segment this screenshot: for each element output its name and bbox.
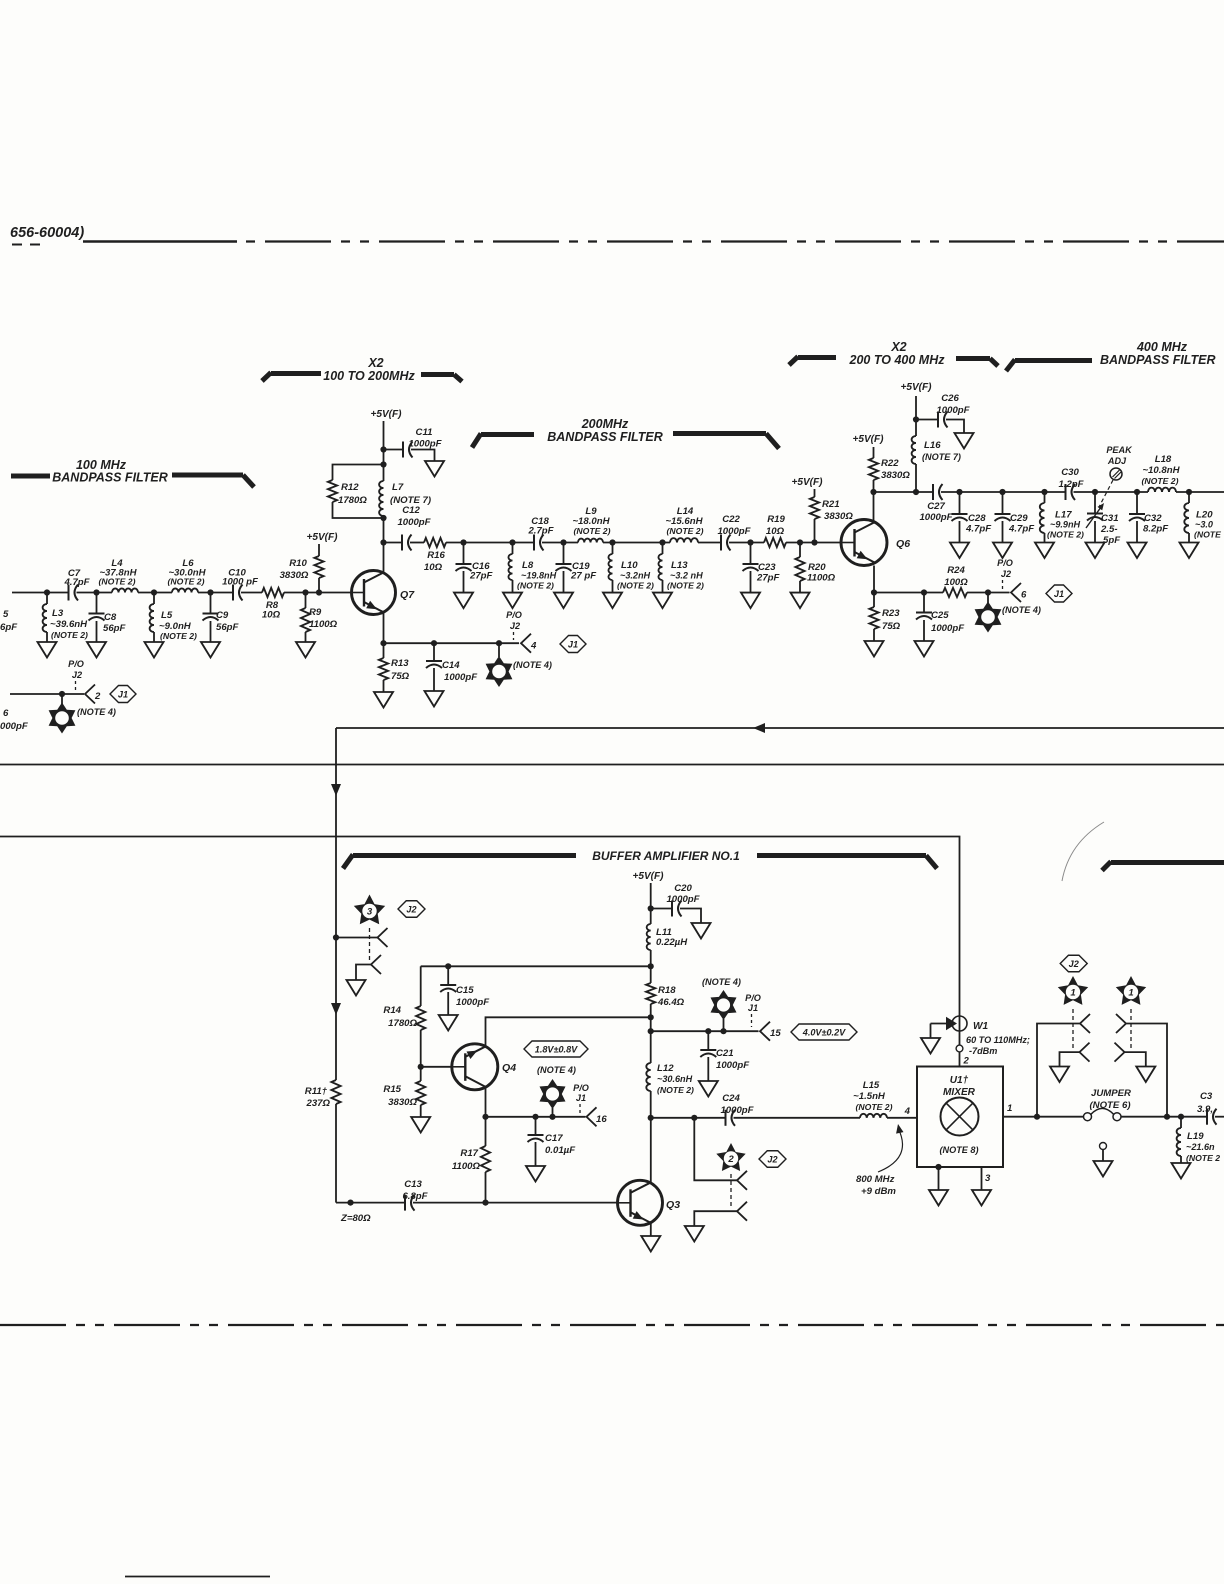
svg-text:L7: L7	[392, 482, 404, 493]
connector circle mixer pin2	[956, 1045, 963, 1052]
capacitor C20	[651, 908, 672, 910]
ground R13	[374, 692, 393, 708]
ground L3	[38, 642, 57, 658]
node C20	[648, 905, 654, 911]
transistor Q3	[618, 1180, 663, 1225]
svg-text:P/O: P/O	[997, 558, 1013, 568]
svg-text:~19.8nH: ~19.8nH	[521, 571, 557, 581]
wire to +5V L16	[915, 396, 917, 420]
svg-text:27pF: 27pF	[756, 573, 781, 584]
capacitor C32	[1136, 492, 1138, 514]
ground L19	[1172, 1163, 1191, 1179]
wire pin15	[651, 1030, 759, 1032]
capacitor C14	[433, 643, 435, 661]
svg-text:~9.9nH: ~9.9nH	[1050, 520, 1081, 530]
svg-text:(NOTE 4): (NOTE 4)	[702, 977, 741, 987]
ground R15	[411, 1117, 430, 1133]
ground L5	[145, 642, 164, 658]
capacitor C9	[210, 593, 212, 614]
wire to +5V Q7	[383, 421, 385, 450]
wire Q7 emitter	[383, 612, 385, 644]
ground C9	[201, 642, 220, 658]
connector star 3	[354, 895, 385, 925]
ground R20	[791, 593, 810, 609]
svg-text:(NOTE 2): (NOTE 2)	[617, 581, 654, 591]
svg-text:(NOTE 4): (NOTE 4)	[1002, 605, 1041, 615]
svg-text:1000pF: 1000pF	[408, 439, 442, 450]
svg-text:P/O: P/O	[573, 1083, 589, 1093]
svg-text:R20: R20	[808, 562, 826, 573]
svg-text:+5V(F): +5V(F)	[306, 532, 338, 543]
node star pin6	[985, 589, 991, 595]
node L3	[44, 589, 50, 595]
svg-text:R19: R19	[767, 514, 785, 525]
wire to mixer LO	[0, 837, 960, 1017]
ground C11	[425, 461, 444, 477]
node Q6 collector	[870, 489, 876, 495]
svg-text:C13: C13	[404, 1179, 422, 1190]
hex label J2 star3	[398, 901, 425, 918]
svg-text:+5V(F): +5V(F)	[632, 871, 664, 882]
node C15	[445, 963, 451, 969]
inductor L7	[383, 516, 385, 518]
svg-text:R24: R24	[947, 565, 965, 576]
svg-text:~3.2nH: ~3.2nH	[620, 571, 651, 581]
svg-text:27pF: 27pF	[469, 571, 494, 582]
svg-text:C24: C24	[722, 1093, 740, 1104]
svg-text:75Ω: 75Ω	[391, 671, 410, 682]
resistor R16	[424, 538, 446, 547]
svg-text:BANDPASS FILTER: BANDPASS FILTER	[547, 430, 663, 444]
transistor Q4	[452, 1044, 498, 1090]
svg-text:R16: R16	[427, 550, 445, 561]
svg-text:P/O: P/O	[68, 659, 84, 669]
capacitor C30	[1065, 484, 1067, 500]
wire Q4 base	[421, 1066, 453, 1068]
resistor R12 parallel branch	[333, 502, 384, 518]
node C8	[93, 589, 99, 595]
svg-text:(NOTE 2): (NOTE 2)	[517, 581, 554, 591]
svg-text:~10.8nH: ~10.8nH	[1142, 465, 1180, 476]
capacitor C10	[232, 585, 234, 601]
transistor Q7	[352, 571, 396, 615]
svg-text:0.22µH: 0.22µH	[656, 937, 688, 948]
inductor L14	[670, 538, 698, 542]
ground L13	[653, 593, 672, 609]
svg-text:3: 3	[367, 907, 373, 918]
node L11-R18	[648, 963, 654, 969]
svg-text:5: 5	[3, 609, 9, 620]
svg-text:6: 6	[3, 708, 9, 719]
capacitor C33	[1206, 1109, 1208, 1125]
svg-text:~3.0: ~3.0	[1195, 520, 1213, 530]
svg-text:(NOTE 6): (NOTE 6)	[1089, 1100, 1130, 1111]
pin 6 of J2	[1011, 583, 1021, 602]
capacitor C16	[463, 543, 465, 565]
wire L4-L6	[138, 592, 172, 594]
svg-text:BANDPASS FILTER: BANDPASS FILTER	[52, 471, 168, 485]
svg-text:PEAK: PEAK	[1106, 445, 1133, 455]
hex label 1.8V	[524, 1041, 588, 1057]
svg-text:J2: J2	[1069, 959, 1079, 969]
mixer U1 box	[917, 1067, 1003, 1168]
svg-text:L18: L18	[1155, 454, 1172, 465]
svg-text:(NOTE 2): (NOTE 2)	[1047, 530, 1084, 540]
connector star 1 right	[1116, 976, 1146, 1005]
node star3	[333, 934, 339, 940]
resistor R9	[305, 593, 307, 609]
top dash-dot border line	[83, 240, 237, 243]
svg-text:C3: C3	[1200, 1091, 1213, 1102]
svg-text:L10: L10	[621, 560, 638, 571]
svg-text:1000pF: 1000pF	[666, 894, 700, 905]
svg-text:J2: J2	[406, 904, 416, 914]
pin 16 of J1	[587, 1107, 597, 1126]
svg-text:200 TO 400 MHz: 200 TO 400 MHz	[849, 353, 946, 367]
svg-text:(NOTE 2): (NOTE 2)	[667, 526, 704, 536]
wire Q6 emitter	[873, 566, 875, 593]
wire +5V to C20 node	[650, 883, 652, 924]
wire C27-C30	[941, 491, 1065, 493]
capacitor C22	[720, 535, 722, 551]
node C29	[999, 489, 1005, 495]
node Q7 emitter	[380, 640, 386, 646]
node L17	[1041, 489, 1047, 495]
capacitor C18	[533, 535, 535, 551]
node R9	[302, 589, 308, 595]
node L7 top	[380, 461, 386, 467]
wire C10-R8	[241, 592, 262, 594]
svg-text:+5V(F): +5V(F)	[900, 382, 932, 393]
svg-text:60 TO 110MHz;: 60 TO 110MHz;	[966, 1035, 1030, 1045]
ground C26	[955, 433, 974, 449]
svg-text:L16: L16	[924, 440, 941, 451]
svg-text:J2: J2	[510, 621, 520, 631]
svg-text:C22: C22	[722, 514, 740, 525]
capacitor C29	[1002, 492, 1004, 514]
svg-text:+5V(F): +5V(F)	[852, 434, 884, 445]
wire mixer input	[651, 1117, 725, 1119]
connector star pin2	[61, 694, 63, 704]
svg-text:J2: J2	[72, 670, 82, 680]
svg-text:100Ω: 100Ω	[944, 577, 968, 588]
ground jumper spare	[1094, 1161, 1113, 1177]
ground W1	[921, 1038, 940, 1054]
wire Q3 collector	[650, 1118, 652, 1184]
wire emitter to R24	[874, 592, 943, 594]
wire mixer output	[1003, 1116, 1084, 1118]
svg-text:BUFFER AMPLIFIER NO.1: BUFFER AMPLIFIER NO.1	[592, 849, 740, 863]
svg-text:1.2pF: 1.2pF	[1058, 479, 1084, 490]
capacitor C21	[707, 1031, 709, 1050]
ground star3	[347, 980, 366, 996]
svg-text:Z=80Ω: Z=80Ω	[340, 1213, 371, 1224]
inductor L3	[46, 593, 48, 605]
svg-text:3.9,: 3.9,	[1197, 1104, 1213, 1115]
connector star pin4	[498, 643, 500, 657]
node R21	[811, 539, 817, 545]
node star2 branch	[691, 1115, 697, 1121]
svg-text:4.7pF: 4.7pF	[965, 524, 992, 535]
wire collector-L7	[383, 518, 385, 543]
svg-text:Q3: Q3	[666, 1199, 680, 1211]
svg-text:1000pF: 1000pF	[717, 526, 751, 537]
inductor L19	[1180, 1117, 1182, 1128]
svg-text:(NOTE 2): (NOTE 2)	[168, 577, 205, 587]
svg-text:R11†: R11†	[305, 1086, 328, 1097]
node C25	[921, 589, 927, 595]
svg-text:1000pF: 1000pF	[397, 517, 431, 528]
wire W1 to mixer pin2	[959, 1031, 961, 1067]
node L16 bottom	[913, 489, 919, 495]
svg-text:R10: R10	[289, 558, 307, 569]
resistor R10	[318, 578, 320, 593]
svg-text:46.4Ω: 46.4Ω	[657, 997, 685, 1008]
bottom dash-dot border line	[0, 1324, 1224, 1326]
ground C19	[554, 593, 573, 609]
pin a star2	[737, 1171, 747, 1190]
svg-text:L3: L3	[52, 608, 64, 619]
svg-text:L15: L15	[863, 1080, 880, 1091]
svg-text:C31: C31	[1101, 513, 1119, 524]
node C16	[460, 539, 466, 545]
ground C32	[1128, 543, 1147, 559]
svg-text:~30.6nH: ~30.6nH	[657, 1074, 693, 1084]
dashed lead pin15	[751, 1014, 753, 1027]
svg-text:1100Ω: 1100Ω	[452, 1161, 481, 1172]
ground L10	[603, 593, 622, 609]
svg-text:R12: R12	[341, 482, 359, 493]
node Q6 emitter	[871, 589, 877, 595]
svg-text:R15: R15	[383, 1084, 401, 1095]
svg-text:1: 1	[1007, 1103, 1012, 1114]
arrow 800MHz	[878, 1128, 903, 1172]
header X2 200 TO 400 MHz	[789, 357, 798, 366]
capacitor C17	[535, 1117, 537, 1135]
svg-text:P/O: P/O	[506, 610, 522, 620]
pin b star1R	[1115, 1043, 1125, 1062]
inductor L6	[172, 588, 198, 592]
svg-text:C23: C23	[758, 562, 776, 573]
node C9	[207, 589, 213, 595]
svg-text:16: 16	[596, 1114, 607, 1125]
node L20	[1186, 489, 1192, 495]
wire 400MHz output	[1176, 491, 1224, 493]
svg-text:75Ω: 75Ω	[882, 621, 901, 632]
ground Q3	[641, 1236, 660, 1252]
ground mixer pin3	[972, 1190, 991, 1206]
svg-text:100 TO 200MHz: 100 TO 200MHz	[323, 369, 415, 383]
svg-text:656-60004): 656-60004)	[10, 225, 84, 241]
svg-text:J1: J1	[748, 1003, 758, 1013]
wire C13 input	[336, 1202, 404, 1204]
node C32	[1134, 489, 1140, 495]
node R10	[316, 589, 322, 595]
svg-text:10Ω: 10Ω	[262, 610, 281, 621]
svg-text:C8: C8	[104, 612, 117, 623]
wire star1L ground	[1060, 1052, 1080, 1066]
resistor R22	[873, 480, 875, 492]
capacitor C23	[750, 543, 752, 565]
transistor Q6	[841, 520, 887, 566]
wire emitter to pin 4	[384, 642, 520, 644]
wire Q6 collector to L16	[874, 491, 917, 493]
wire star2 drop	[694, 1118, 737, 1181]
svg-text:2: 2	[94, 691, 101, 702]
ground L20	[1180, 543, 1199, 559]
svg-text:C17: C17	[545, 1133, 563, 1144]
wire Q6 collector	[873, 492, 875, 522]
svg-text:L5: L5	[161, 610, 173, 621]
node jumper left	[1034, 1114, 1040, 1120]
inductor L9	[578, 539, 603, 543]
resistor R13	[383, 643, 385, 658]
svg-text:10Ω: 10Ω	[424, 562, 443, 573]
svg-text:6.8pF: 6.8pF	[402, 1191, 428, 1202]
connector star pin6	[987, 593, 989, 604]
svg-text:J2: J2	[767, 1154, 777, 1164]
svg-text:1000pF: 1000pF	[444, 672, 478, 683]
node R18 bottom	[648, 1014, 654, 1020]
wire left vertical drop	[335, 728, 337, 1080]
wire bypass left	[1037, 1024, 1080, 1117]
svg-text:R22: R22	[881, 458, 899, 469]
wire C13 to Q3 base	[413, 1202, 618, 1204]
svg-text:(NOTE 2): (NOTE 2)	[160, 631, 197, 641]
svg-text:1000pF: 1000pF	[936, 405, 970, 416]
svg-text:2.5-: 2.5-	[1100, 524, 1118, 535]
svg-text:L19: L19	[1187, 1131, 1204, 1142]
svg-text:(NOTE 2): (NOTE 2)	[574, 526, 611, 536]
svg-text:1100Ω: 1100Ω	[309, 619, 338, 630]
pin 2 of J2	[85, 685, 95, 704]
svg-text:C11: C11	[416, 427, 433, 438]
dashed lead pin4	[513, 632, 515, 640]
resistor R14	[420, 966, 422, 1006]
svg-text:X2: X2	[890, 340, 906, 354]
inductor L4	[112, 588, 138, 592]
svg-text:1780Ω: 1780Ω	[388, 1018, 417, 1029]
node C19	[560, 539, 566, 545]
node star pin4	[496, 640, 502, 646]
svg-text:~39.6nH: ~39.6nH	[50, 619, 88, 630]
svg-text:C21: C21	[716, 1048, 734, 1059]
node C23	[747, 539, 753, 545]
capacitor C11	[384, 449, 403, 451]
svg-text:800 MHz: 800 MHz	[856, 1174, 895, 1185]
pin a star3	[378, 928, 388, 947]
pin a star1L	[1080, 1014, 1090, 1033]
svg-text:1.8V±0.8V: 1.8V±0.8V	[535, 1044, 578, 1054]
wire Q3 emitter	[650, 1223, 652, 1237]
node Q4 base	[418, 1064, 424, 1070]
hex label J1 pin4	[560, 636, 586, 653]
svg-text:Q6: Q6	[896, 538, 910, 550]
svg-text:3: 3	[985, 1173, 991, 1184]
svg-text:R13: R13	[391, 658, 409, 669]
svg-text:L8: L8	[522, 560, 534, 571]
node star pin15	[720, 1028, 726, 1034]
wire star2 pin b ground	[694, 1211, 737, 1226]
wire L7-C11 node	[383, 450, 385, 465]
svg-text:C20: C20	[674, 883, 692, 894]
header BUFFER AMPLIFIER NO.1	[343, 855, 353, 869]
svg-text:C27: C27	[927, 501, 945, 512]
svg-text:~1.5nH: ~1.5nH	[853, 1091, 886, 1102]
svg-text:C30: C30	[1061, 467, 1079, 478]
header bracket right section	[1102, 862, 1111, 871]
ground R23	[865, 641, 884, 657]
svg-text:10Ω: 10Ω	[766, 526, 785, 537]
capacitor C15	[447, 966, 449, 985]
node C17	[532, 1114, 538, 1120]
svg-text:W1: W1	[973, 1021, 989, 1032]
hex label J2 star2	[759, 1151, 786, 1168]
wire C12-R16	[410, 542, 424, 544]
coax W1	[959, 1016, 961, 1031]
svg-text:+9 dBm: +9 dBm	[861, 1186, 896, 1197]
svg-text:1000 pF: 1000 pF	[222, 577, 259, 588]
node star pin16	[549, 1114, 555, 1120]
ground C23	[741, 593, 760, 609]
svg-text:0.01µF: 0.01µF	[545, 1145, 576, 1156]
ground C28	[950, 543, 969, 559]
svg-text:+5V(F): +5V(F)	[370, 409, 402, 420]
node L19	[1178, 1114, 1184, 1120]
ground mixer left	[929, 1190, 948, 1206]
pin b star2	[737, 1202, 747, 1221]
svg-text:4: 4	[530, 641, 537, 652]
svg-text:400 MHz: 400 MHz	[1136, 340, 1188, 354]
ground C14	[425, 691, 444, 707]
capacitor C25	[923, 593, 925, 613]
svg-text:J1: J1	[118, 689, 128, 699]
svg-text:BANDPASS FILTER: BANDPASS FILTER	[1100, 353, 1216, 367]
svg-text:C14: C14	[442, 660, 460, 671]
ground star1L	[1050, 1067, 1069, 1083]
svg-text:1000pF: 1000pF	[931, 623, 965, 634]
wire R24-pin6	[967, 592, 1010, 594]
svg-text:Q7: Q7	[400, 589, 415, 601]
svg-text:(NOTE 4): (NOTE 4)	[77, 707, 116, 717]
svg-text:ADJ: ADJ	[1107, 456, 1127, 466]
node Q7 collector C12	[380, 539, 386, 545]
svg-text:C32: C32	[1144, 513, 1162, 524]
ground C8	[87, 642, 106, 658]
wire Q4 emitter pin16	[486, 1088, 586, 1117]
wire C22-R19	[729, 542, 764, 544]
wire star3 pin a	[336, 937, 378, 939]
hex label J1 pin6	[1046, 585, 1072, 602]
node mixer gnd pin	[935, 1164, 941, 1170]
node C28	[956, 489, 962, 495]
svg-text:(NOTE 7): (NOTE 7)	[922, 452, 961, 462]
ground C31	[1086, 543, 1105, 559]
inductor L8	[512, 543, 514, 555]
svg-text:C9: C9	[216, 610, 229, 621]
svg-text:(NOTE 2: (NOTE 2	[1186, 1153, 1220, 1163]
svg-text:J1: J1	[568, 639, 578, 649]
svg-text:C28: C28	[968, 513, 986, 524]
ground R9	[296, 642, 315, 658]
inductor L11	[647, 924, 651, 950]
mixer symbol	[941, 1098, 979, 1136]
dashed lead star2	[730, 1174, 732, 1208]
resistor R19	[764, 538, 786, 547]
node L5	[151, 589, 157, 595]
wire L14-C22	[698, 542, 721, 544]
svg-text:4.7pF: 4.7pF	[1008, 524, 1035, 535]
